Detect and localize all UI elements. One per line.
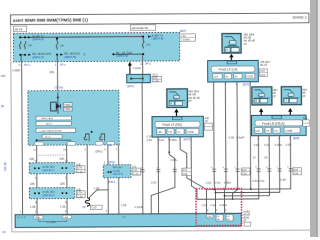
svg-text:Y/+: Y/+ [177, 131, 181, 134]
svg-text:(T) T/M: (T) T/M [54, 85, 62, 89]
svg-text:1.0B: 1.0B [121, 203, 127, 207]
svg-text:[E09]: [E09] [293, 136, 299, 140]
svg-text:L0N: L0N [255, 130, 260, 133]
svg-text:0.3w: 0.3w [215, 181, 221, 185]
svg-text:L7M: L7M [207, 216, 211, 218]
svg-text:(2P): (2P) [1, 74, 6, 78]
svg-text:0.3B+: 0.3B+ [171, 158, 178, 162]
svg-text:[2]: [2] [3, 230, 6, 234]
svg-text:0.3w: 0.3w [259, 179, 265, 183]
svg-text:Front LF (R4): Front LF (R4) [163, 123, 182, 127]
svg-text:(2B): (2B) [29, 157, 34, 161]
svg-text:1.0B: 1.0B [60, 204, 66, 208]
svg-text:L0K: L0K [158, 131, 163, 134]
svg-text:C-16: C-16 [153, 79, 159, 83]
svg-text:WIRE DATA: WIRE DATA [41, 117, 53, 120]
svg-text:0.3R: 0.3R [286, 143, 292, 147]
svg-text:(2EA-d-1): (2EA-d-1) [113, 173, 123, 176]
svg-text:2.0B/R: 2.0B/R [12, 68, 20, 72]
svg-text:RKE dEd: RKE dEd [113, 167, 123, 169]
svg-text:2P: 2P [188, 99, 191, 103]
svg-text:RECV: RECV [46, 124, 53, 126]
svg-text:0.3Bw: 0.3Bw [275, 143, 282, 147]
svg-text:Y/G: Y/G [168, 131, 172, 134]
svg-text:(2EA-B-C): (2EA-B-C) [42, 193, 54, 197]
svg-text:HI LO: HI LO [45, 137, 51, 139]
svg-text:0.3G: 0.3G [202, 203, 208, 207]
svg-text:[d]: [d] [1, 104, 4, 108]
svg-text:(2EA-B-C): (2EA-B-C) [42, 168, 54, 172]
svg-text:0.3Bw: 0.3Bw [170, 138, 177, 142]
svg-text:(1BR/A-B): (1BR/A-B) [116, 54, 128, 58]
svg-text:0.3B: 0.3B [229, 135, 235, 139]
svg-text:(P&U): (P&U) [108, 180, 115, 184]
svg-text:[dE dEl]: [dE dEl] [3, 162, 7, 171]
svg-text:Front LF (L4): Front LF (L4) [219, 68, 238, 72]
svg-text:A/B: A/B [303, 116, 307, 120]
svg-text:C-CAN: C-CAN [47, 220, 56, 224]
svg-text:1.0B: 1.0B [30, 205, 36, 209]
svg-text:0.3G: 0.3G [151, 180, 157, 184]
svg-text:5V: 5V [225, 76, 228, 79]
svg-text:[d]: [d] [83, 205, 86, 209]
svg-text:C-16dtd: C-16dtd [180, 37, 190, 41]
svg-text:(rA dE): (rA dE) [113, 170, 120, 173]
svg-text:E7M: E7M [77, 191, 82, 195]
svg-text:1.2w/R: 1.2w/R [133, 66, 141, 70]
svg-text:asert 88M8 8M8 8MM(TPMS) 8M8 (: asert 88M8 8M8 8MM(TPMS) 8M8 (1) [13, 17, 88, 22]
svg-text:(1BR/A-B): (1BR/A-B) [64, 55, 76, 59]
svg-text:High: High [35, 216, 41, 219]
svg-text:C25: C25 [133, 168, 138, 172]
svg-text:CODE: CODE [187, 131, 194, 134]
svg-text:2P: 2P [302, 94, 305, 98]
svg-text:0.3Bw: 0.3Bw [224, 181, 231, 185]
svg-text:[E07]: [E07] [184, 137, 190, 141]
svg-text:C16: C16 [260, 73, 265, 77]
svg-text:12V: 12V [214, 76, 219, 79]
svg-text:2P: 2P [273, 94, 276, 98]
svg-text:0.3R: 0.3R [280, 178, 286, 182]
svg-text:0.3R: 0.3R [147, 134, 153, 138]
svg-text:COMB: COMB [285, 130, 293, 133]
svg-text:0.3G: 0.3G [252, 179, 258, 183]
svg-text:TPMS: TPMS [64, 109, 71, 111]
svg-text:J/P-C: J/P-C [145, 61, 152, 65]
svg-text:C-CAN TRANSCEIVER: C-CAN TRANSCEIVER [39, 129, 62, 132]
svg-text:J/P-C: J/P-C [24, 63, 31, 67]
svg-text:2P: 2P [244, 42, 247, 46]
svg-text:0.3G: 0.3G [206, 181, 212, 185]
svg-text:T/B: T/B [108, 143, 112, 147]
svg-text:0.3w/R: 0.3w/R [135, 205, 143, 209]
svg-text:10A: 10A [146, 43, 151, 47]
svg-text:Q+: Q+ [123, 215, 127, 219]
svg-text:J/P-u: J/P-u [60, 62, 67, 66]
svg-text:0.3w: 0.3w [264, 143, 270, 147]
svg-text:(2)PIU: (2)PIU [127, 84, 135, 88]
svg-text:G15: G15 [92, 206, 97, 210]
svg-text:2/P&U: 2/P&U [108, 160, 116, 164]
svg-text:(2B): (2B) [59, 157, 64, 161]
svg-text:(2B): (2B) [60, 182, 65, 186]
svg-text:dEl RE: dEl RE [14, 27, 22, 31]
svg-text:C16: C16 [293, 171, 298, 175]
svg-text:Front LR (R5.A): Front LR (R5.A) [262, 122, 285, 126]
svg-text:(1BR/A-B): (1BR/A-B) [32, 55, 44, 59]
svg-text:(1BR/A-B): (1BR/A-B) [152, 37, 164, 41]
svg-text:(2B): (2B) [49, 70, 54, 74]
svg-text:2-4d: 2-4d [180, 34, 186, 38]
svg-text:dd dE dEd: dd dE dEd [42, 189, 55, 193]
svg-text:aElARHdE RE: aElARHdE RE [131, 26, 148, 30]
svg-text:0.3w/R: 0.3w/R [236, 135, 244, 139]
svg-text:10A: 10A [28, 43, 33, 47]
svg-text:60456-1: 60456-1 [293, 14, 307, 19]
svg-text:[E07]: [E07] [180, 29, 186, 33]
svg-text:0.3w: 0.3w [211, 203, 217, 207]
svg-text:C+ C-C: C+ C-C [17, 215, 26, 219]
svg-text:dd dE dEd: dd dE dEd [42, 164, 55, 168]
svg-text:[E07]: [E07] [243, 83, 249, 87]
svg-text:0.3w: 0.3w [159, 138, 165, 142]
svg-text:E7M: E7M [77, 166, 82, 170]
svg-text:10A: 10A [60, 44, 65, 48]
svg-text:C16: C16 [182, 172, 187, 176]
svg-text:2P: 2P [205, 119, 208, 123]
svg-text:TPMS: TPMS [64, 105, 71, 107]
svg-text:T0+: T0+ [274, 130, 279, 133]
svg-text:C-16: C-16 [77, 169, 83, 173]
svg-text:(2B/C): (2B/C) [95, 149, 103, 153]
svg-text:C05: C05 [260, 69, 265, 73]
svg-text:A-5: A-5 [132, 164, 137, 168]
svg-text:E14: E14 [293, 167, 298, 171]
svg-text:C16: C16 [242, 171, 247, 175]
svg-text:0.3G: 0.3G [254, 143, 260, 147]
svg-text:W-: W- [235, 76, 238, 79]
svg-text:(2B): (2B) [30, 182, 35, 186]
svg-text:E13: E13 [242, 168, 247, 172]
svg-text:Low: Low [64, 216, 69, 219]
svg-text:C-16: C-16 [77, 194, 83, 198]
svg-text:0.3Bw: 0.3Bw [220, 203, 227, 207]
svg-text:(1BR/A-B): (1BR/A-B) [32, 37, 44, 41]
svg-text:(9): (9) [264, 155, 267, 159]
svg-text:1.0B: 1.0B [94, 186, 100, 190]
svg-text:dE 2P: dE 2P [260, 63, 267, 67]
svg-text:C-16: C-16 [133, 172, 139, 176]
svg-text:CODE: CODE [246, 75, 253, 78]
